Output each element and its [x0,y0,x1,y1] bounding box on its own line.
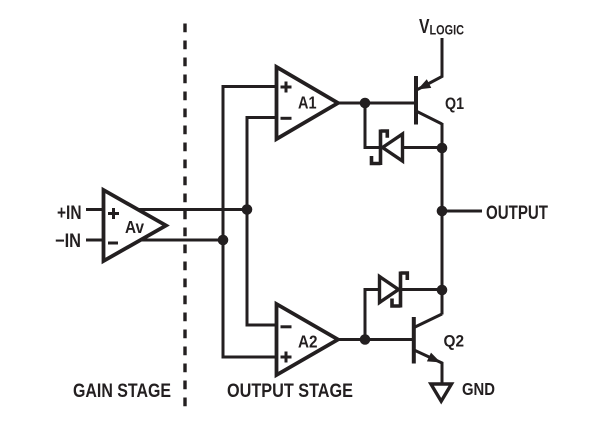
wire A2 output to Q2 base [338,338,412,341]
emitter (to VLOGIC) with arrow toward base [418,38,443,90]
transistor Q2 [414,314,442,384]
cathode bar [379,130,383,166]
svg-text:GND: GND [462,379,495,399]
node junction: bottom output to plus bus [218,235,229,246]
svg-text:Av: Av [125,217,144,237]
schottky bottom hook [372,156,381,164]
node A2 output junction [360,334,371,345]
cathode bar [399,272,403,308]
node D1 anode junction [437,143,448,154]
wire minus bus to A1 - input [247,118,276,210]
svg-text:Q1: Q1 [445,95,464,113]
wire output rail (Q1 collector to Q2 collector) [441,123,444,315]
schottky bottom hook [392,299,401,307]
svg-text:V: V [419,16,430,38]
ground symbol [431,384,452,401]
schottky top hook [401,273,408,280]
svg-text:A2: A2 [298,332,318,352]
node OUTPUT junction [437,206,448,217]
svg-text:−IN: −IN [55,231,81,252]
anode triangle [383,134,403,161]
transistor Q1 [416,38,442,125]
svg-text:OUTPUT: OUTPUT [486,203,548,224]
svg-text:OUTPUT STAGE: OUTPUT STAGE [227,380,353,402]
diode D1 Schottky clamp (cathode to A1 output, anode to Q1 collector) [365,103,442,165]
wire plus bus to A2 + input [223,240,276,357]
diode D2 Schottky clamp (anode to A2 output, cathode to Q2 collector) [365,272,442,340]
collector diagonal from rail [414,314,442,328]
svg-text:LOGIC: LOGIC [430,21,465,37]
op-amp A1 [277,67,339,139]
wire plus bus to A1 + input [223,87,276,241]
wire from A2 output node up [365,290,379,340]
anode triangle [380,277,399,303]
node A1 output junction [360,98,371,109]
wire -IN to Av [86,239,104,242]
svg-text:Q2: Q2 [444,333,465,351]
svg-text:+IN: +IN [57,203,82,224]
wire Av top output [138,208,249,211]
wire OUTPUT stub [442,210,482,213]
emitter diagonal with arrow away from base [414,350,442,384]
wire anode to collector rail [403,146,443,149]
dashed stage separator [183,24,186,415]
schottky top hook [381,131,388,138]
svg-text:A1: A1 [298,93,317,113]
wire +IN to Av [86,208,104,211]
node D2 cathode junction [437,285,448,296]
wire cathode to collector rail [401,288,443,291]
wire from A1 output node down [365,103,379,148]
node junction: top output to minus bus [242,204,253,215]
svg-text:GAIN STAGE: GAIN STAGE [73,380,171,402]
op-amp A2 [277,304,339,375]
wire minus bus to A2 - input [247,210,276,326]
wire A1 output to Q1 base [338,102,415,105]
op-amp Av [104,190,167,261]
wire Av bottom output [140,239,223,242]
collector diagonal [417,112,442,125]
